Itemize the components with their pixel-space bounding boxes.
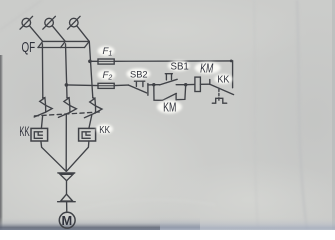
bottom shadow band (0, 217, 200, 230)
wire phase B vertical (66, 44, 68, 98)
node dot fuse2 tap (65, 83, 69, 87)
bus middle slant (61, 41, 66, 47)
SB2 fixed terminal (147, 84, 149, 96)
left edge dark line (0, 55, 2, 230)
cable marker up-triangle (58, 194, 76, 202)
KM aux contact arm (163, 93, 177, 100)
terminal circle 2 (45, 18, 54, 27)
svg-text:SB1: SB1 (171, 61, 189, 72)
wire coil to KK (200, 83, 209, 85)
node dot fuse1 tap (88, 60, 92, 64)
wire top control line (114, 60, 232, 62)
terminal circle 1 (22, 18, 31, 27)
crease right (297, 0, 307, 230)
bus right slant (85, 41, 90, 47)
KK contact arm (210, 84, 234, 94)
crease top-left (0, 0, 42, 30)
KK contact fixed tick (209, 80, 211, 85)
right edge shading (332, 0, 335, 230)
svg-text:SB2: SB2 (130, 69, 148, 79)
KK thermal actuator symbol (212, 98, 226, 103)
wire fuse1 feed (90, 60, 98, 62)
contactor coil KM (195, 77, 201, 91)
wire to SB2 (114, 84, 128, 87)
fuse FU1 (98, 59, 114, 64)
crease vertical mid-right (254, 0, 258, 230)
wire phase A to heater (41, 116, 42, 128)
thermal heater KK left box (31, 128, 48, 141)
svg-text:KK: KK (217, 74, 229, 86)
wire to motor (66, 202, 68, 213)
wire phase B down (65, 115, 67, 171)
cable marker down-triangle (58, 173, 75, 181)
wire node B to coil (186, 83, 195, 85)
svg-text:KK: KK (19, 125, 30, 140)
heater element symbol right (82, 132, 90, 139)
label halos (96, 46, 232, 134)
KM main contact 2 (67, 97, 69, 99)
wire right drop (232, 61, 234, 88)
svg-text:KK: KK (99, 124, 110, 135)
fuse FU2 (98, 83, 114, 88)
svg-text:KM: KM (200, 62, 214, 76)
linkage dashed line (34, 112, 100, 116)
slash terminal 3 (68, 16, 81, 29)
KM aux branch left wire (154, 85, 163, 101)
wire SB2 to node (148, 84, 154, 86)
thermal heater KK right box (79, 128, 96, 141)
wire phase A vertical (41, 44, 43, 98)
bus left slant (38, 41, 43, 47)
wire lead L1 (29, 26, 42, 42)
svg-text:KM: KM (163, 101, 176, 115)
KM main contact 3 (93, 97, 95, 100)
KM aux branch right wire (176, 85, 186, 100)
SB2 actuator (134, 81, 144, 86)
wire left heater to star point (41, 141, 66, 171)
heater element symbol left (34, 132, 42, 139)
wire right heater to star point (67, 141, 89, 171)
bus lower line (38, 47, 85, 49)
svg-text:QF: QF (21, 39, 35, 55)
wire (66, 181, 68, 195)
KM aux fixed terminal (175, 94, 177, 100)
corner junction blob (230, 60, 233, 63)
paper shading patches (0, 100, 210, 240)
crease bottom-left curve (60, 200, 215, 215)
motor M circle (59, 212, 75, 228)
slash terminal 2 (43, 16, 56, 29)
SB1 actuator (165, 74, 172, 80)
wire lead L2 (52, 26, 65, 42)
wire phase C to heater (89, 115, 92, 128)
node dot A (152, 83, 155, 86)
terminal circle 3 (70, 18, 79, 27)
KM main contact 1 (43, 97, 45, 99)
wire lead L3 (77, 26, 89, 42)
bus upper line (43, 40, 90, 42)
wire phase C vertical (89, 41, 93, 97)
slash terminal 1 (20, 16, 33, 29)
KK thermal link (dashed) (218, 89, 220, 101)
node dot B (184, 83, 187, 86)
svg-text:M: M (62, 213, 73, 228)
pushbutton SB2 contact arm (128, 85, 146, 93)
wire SB1 to node B (176, 84, 186, 86)
pushbutton SB1 contact arm (154, 79, 177, 85)
wire fuse2 feed (66, 84, 98, 87)
